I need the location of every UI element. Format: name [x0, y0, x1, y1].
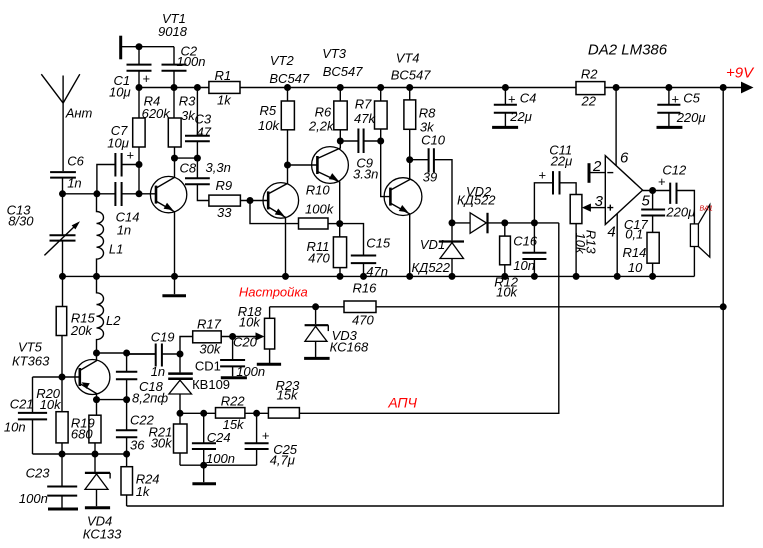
svg-text:DA2 LM386: DA2 LM386 [588, 42, 668, 59]
svg-text:15k: 15k [277, 388, 299, 403]
diode VD2 [452, 213, 505, 234]
resistor R20 [56, 377, 68, 454]
transistor VT1 [150, 158, 186, 276]
svg-text:КС168: КС168 [330, 340, 369, 355]
capacitor C5 [657, 88, 683, 128]
svg-text:680: 680 [71, 427, 93, 442]
svg-text:220μ: 220μ [676, 110, 706, 125]
node rail R11 [337, 273, 344, 280]
svg-text:CD1: CD1 [195, 359, 221, 374]
svg-text:КД522: КД522 [412, 260, 451, 275]
svg-text:3,3n: 3,3n [206, 160, 231, 175]
node rail VT1e [171, 273, 178, 280]
svg-text:C16: C16 [513, 234, 538, 249]
svg-text:R3: R3 [179, 93, 196, 108]
node rail R12 [501, 273, 508, 280]
svg-text:+9V: +9V [726, 65, 755, 82]
svg-text:VT2: VT2 [270, 53, 295, 68]
node R20 bottom [59, 451, 66, 458]
ground bar top left [119, 36, 122, 60]
svg-text:C21: C21 [10, 396, 34, 411]
capacitor C12 [670, 183, 694, 224]
node rail C15 [360, 273, 367, 280]
svg-text:1k: 1k [136, 484, 151, 499]
svg-text:C12: C12 [662, 163, 687, 178]
svg-text:2: 2 [592, 158, 602, 175]
node rail R5 [284, 84, 291, 91]
svg-text:100n: 100n [177, 54, 206, 69]
capacitor C9 [340, 129, 380, 154]
resistor R23 [268, 408, 299, 419]
svg-text:10k: 10k [496, 284, 518, 299]
svg-text:C15: C15 [366, 235, 391, 250]
resistor R3 [168, 88, 181, 159]
node VD2 in [449, 219, 456, 226]
svg-text:R14: R14 [623, 245, 647, 260]
svg-text:22μ: 22μ [509, 109, 532, 124]
varicap CD1 [168, 354, 193, 413]
svg-text:АПЧ: АПЧ [387, 395, 417, 411]
node A1 [59, 190, 66, 197]
svg-text:22μ: 22μ [550, 153, 573, 168]
capacitor C24 [192, 413, 216, 465]
wire pin4 [616, 214, 618, 277]
node C24 top [200, 410, 207, 417]
capacitor C16 [522, 223, 546, 277]
svg-text:4: 4 [607, 224, 615, 241]
svg-text:1n: 1n [151, 364, 165, 379]
transistor VT2 [263, 165, 299, 276]
svg-text:L2: L2 [106, 313, 121, 328]
svg-text:6: 6 [620, 149, 629, 166]
svg-text:+: + [143, 71, 151, 86]
resistor R5 [281, 88, 294, 166]
svg-text:8,2пф: 8,2пф [132, 391, 168, 406]
opamp DA2 [605, 156, 642, 225]
resistor R15 [56, 276, 66, 377]
svg-text:VT4: VT4 [396, 50, 420, 65]
top supply rail [139, 87, 742, 89]
node C9 right [377, 138, 384, 145]
svg-text:R9: R9 [216, 178, 233, 193]
svg-text:10μ: 10μ [107, 135, 129, 150]
node rail VD1 [449, 273, 456, 280]
svg-text:C6: C6 [67, 154, 84, 169]
svg-text:22: 22 [581, 94, 597, 109]
resistor R11 [333, 224, 346, 277]
transistor VT4 [384, 160, 422, 277]
resistor R1 [209, 82, 240, 94]
resistor R21 [174, 413, 188, 465]
svg-text:470: 470 [352, 313, 374, 328]
node L2 bottom [93, 350, 100, 357]
node R4-C7 [136, 161, 143, 168]
node rail C1 [136, 84, 143, 91]
svg-text:0,1: 0,1 [625, 227, 643, 242]
svg-text:R5: R5 [260, 103, 277, 118]
node VD3 top [312, 303, 319, 310]
svg-text:4,7μ: 4,7μ [270, 452, 295, 467]
wire pin6 [615, 88, 617, 166]
node R10 right [336, 220, 343, 227]
node rail VT4e [406, 273, 413, 280]
svg-text:+: + [672, 91, 680, 106]
svg-text:10k: 10k [258, 118, 280, 133]
node rail pin4 [614, 273, 621, 280]
svg-text:КД522: КД522 [457, 193, 496, 208]
potentiometer R13 [570, 195, 605, 277]
node rail R8 [406, 84, 413, 91]
node R17-C20 [229, 333, 236, 340]
variable capacitor C13 [44, 194, 80, 277]
zener diode VD4 [85, 454, 110, 508]
svg-text:36: 36 [130, 437, 145, 452]
svg-text:3: 3 [595, 193, 604, 210]
svg-text:R22: R22 [221, 394, 246, 409]
capacitor C4 [492, 88, 518, 128]
node rail C13 [59, 273, 66, 280]
wire AFC node line [180, 223, 559, 413]
svg-text:Настройка: Настройка [239, 284, 308, 299]
antenna WA [41, 74, 80, 171]
svg-text:100n: 100n [206, 451, 235, 466]
capacitor C17 [641, 191, 665, 233]
resistor R9 [209, 195, 268, 206]
svg-text:30k: 30k [199, 341, 221, 356]
svg-text:100n: 100n [236, 364, 265, 379]
svg-text:C8: C8 [180, 161, 197, 176]
wire VT5 base [33, 376, 80, 378]
node rail L1 [93, 273, 100, 280]
svg-text:C20: C20 [233, 334, 258, 349]
svg-text:КТ363: КТ363 [12, 354, 50, 369]
node rail R7 [377, 84, 384, 91]
ground bar pin2 [588, 163, 591, 183]
svg-text:BC547: BC547 [391, 67, 432, 82]
svg-text:R10: R10 [306, 182, 331, 197]
node C22 top [123, 396, 130, 403]
resistor R24 [121, 454, 133, 506]
node R19 bottom [92, 451, 99, 458]
capacitor C10 [410, 148, 452, 223]
svg-text:10μ: 10μ [109, 85, 131, 100]
resistor R8 [404, 88, 416, 160]
svg-text:9018: 9018 [158, 24, 188, 39]
wire VT5 bias bottom [33, 453, 127, 455]
wire collector node VT1 [175, 157, 198, 159]
node rail pin6 [613, 84, 620, 91]
wire output pin5 [643, 190, 671, 192]
ground below VT1 [162, 276, 186, 295]
capacitor C1 [127, 47, 152, 88]
svg-text:C22: C22 [130, 413, 155, 428]
capacitor C6 [50, 172, 76, 194]
resistor R22 [216, 408, 245, 419]
svg-text:3.3n: 3.3n [353, 167, 378, 182]
resistor R17 [180, 331, 257, 354]
speaker BA1 [690, 205, 709, 277]
potentiometer R18 [256, 307, 282, 365]
svg-text:VD1: VD1 [420, 237, 445, 252]
wire bottom supply return [127, 307, 724, 506]
svg-text:C10: C10 [421, 133, 446, 148]
svg-text:L1: L1 [109, 241, 123, 256]
node VT2 collector [284, 162, 291, 169]
node rail C5 [665, 84, 672, 91]
wire base node VT1 [63, 193, 157, 195]
node rail R14 [649, 273, 656, 280]
node C1 top [136, 43, 143, 50]
svg-text:1n: 1n [67, 176, 81, 191]
svg-text:R7: R7 [355, 97, 372, 112]
svg-text:+: + [539, 168, 547, 183]
zener diode VD3 [304, 307, 330, 359]
svg-text:R8: R8 [419, 106, 436, 121]
wire AFC ground node [180, 464, 257, 466]
wire tuning line [270, 306, 724, 308]
svg-text:R16: R16 [353, 281, 378, 296]
wire VT2 collector to VT3 base [288, 164, 318, 166]
wire VT5 collector node [97, 353, 156, 354]
svg-text:1k: 1k [217, 93, 232, 108]
node C9 left [337, 138, 344, 145]
inductor L1 [97, 194, 104, 277]
node C18 top [123, 350, 130, 357]
svg-text:R2: R2 [581, 67, 598, 82]
resistor R6 [334, 88, 347, 142]
node R9 out [247, 197, 254, 204]
node R3-C3 [171, 155, 178, 162]
svg-text:BC547: BC547 [269, 71, 310, 86]
node C16 top [531, 219, 538, 226]
svg-text:47: 47 [197, 124, 212, 139]
svg-text:10n: 10n [4, 420, 26, 435]
capacitor C3 [185, 88, 210, 159]
node C10 left [406, 156, 413, 163]
node rail C16 [531, 273, 538, 280]
node A2 [93, 190, 100, 197]
transistor VT5 [75, 353, 110, 400]
ground below C24 [192, 465, 216, 484]
resistor R4 [133, 88, 145, 194]
resistor R12 [500, 223, 511, 277]
capacitor C22 [116, 400, 137, 454]
node C25 top [253, 410, 260, 417]
svg-text:C23: C23 [26, 465, 51, 480]
capacitor C2 [162, 47, 187, 88]
svg-text:КВ109: КВ109 [192, 377, 230, 392]
svg-text:8/30: 8/30 [8, 214, 34, 229]
node C24 bottom [200, 462, 207, 469]
svg-text:33: 33 [217, 205, 232, 220]
node CD1 bottom [177, 410, 184, 417]
resistor R19 [89, 400, 101, 454]
capacitor C21 [18, 377, 47, 454]
resistor R2 [576, 82, 605, 95]
resistor R16 [344, 301, 376, 313]
svg-text:C4: C4 [520, 91, 537, 106]
svg-text:10k: 10k [239, 315, 261, 330]
ground rail middle [63, 275, 695, 277]
node tuning right [720, 303, 727, 310]
node rail C3 [194, 84, 201, 91]
transistor VT3 [312, 141, 349, 224]
arrow +9V [741, 82, 754, 94]
node output [649, 187, 656, 194]
capacitor C20 [220, 337, 247, 378]
capacitor C15 [340, 224, 377, 277]
svg-text:VT5: VT5 [18, 340, 43, 355]
svg-text:BA1: BA1 [700, 206, 713, 213]
resistor R7 [375, 88, 391, 197]
capacitor C11 [534, 171, 576, 223]
svg-text:2,2k: 2,2k [308, 119, 335, 134]
svg-text:Ант: Ант [65, 106, 93, 121]
svg-text:10n: 10n [513, 258, 535, 273]
capacitor C7 [97, 153, 139, 194]
svg-text:+: + [262, 428, 270, 443]
svg-text:10k: 10k [40, 397, 62, 412]
svg-text:BC547: BC547 [323, 64, 364, 79]
capacitor C14 [115, 182, 121, 206]
svg-text:R17: R17 [197, 317, 222, 332]
svg-text:C5: C5 [683, 91, 700, 106]
node A3 [136, 190, 143, 197]
node rail C4 [502, 84, 509, 91]
wire right vertical [722, 88, 724, 307]
inductor L2 [97, 276, 104, 353]
node rail C2 [171, 84, 178, 91]
svg-text:100n: 100n [19, 491, 48, 506]
svg-text:100k: 100k [305, 202, 335, 217]
svg-text:20k: 20k [70, 323, 93, 338]
capacitor C8 [185, 158, 210, 200]
node R24 top [123, 451, 130, 458]
svg-text:R1: R1 [215, 68, 232, 83]
resistor R14 [647, 232, 659, 276]
svg-text:220μ: 220μ [665, 205, 695, 220]
resistor R10 [250, 201, 340, 230]
svg-text:10k: 10k [573, 233, 588, 255]
node C3-C8 [194, 155, 201, 162]
wire pin2 [589, 172, 605, 174]
svg-text:47k: 47k [354, 111, 376, 126]
svg-text:39: 39 [423, 169, 437, 184]
wire ground stub [121, 46, 174, 48]
svg-text:10: 10 [628, 260, 643, 275]
svg-text:R6: R6 [315, 104, 332, 119]
svg-text:C19: C19 [151, 330, 175, 345]
svg-text:VT3: VT3 [322, 46, 347, 61]
svg-text:470: 470 [308, 251, 330, 266]
capacitor C25 [245, 413, 269, 465]
svg-text:1n: 1n [117, 222, 131, 237]
node VD2 out [501, 219, 508, 226]
node C19-CD1 [177, 351, 184, 358]
capacitor C23 [47, 454, 78, 509]
node rail R6 [337, 84, 344, 91]
wire VT5 emitter node [97, 399, 127, 401]
diode VD1 [439, 223, 464, 277]
node rail right [720, 84, 727, 91]
capacitor C18 [116, 353, 137, 400]
svg-text:КС133: КС133 [83, 527, 122, 542]
node VT5 emitter [93, 396, 100, 403]
svg-text:30k: 30k [151, 436, 173, 451]
svg-text:C24: C24 [207, 430, 231, 445]
wire detector node [505, 222, 559, 224]
node rail R13 [573, 273, 580, 280]
capacitor C19 [127, 344, 180, 367]
node rail VT2e [282, 273, 289, 280]
node VT5 base [59, 374, 66, 381]
svg-text:+: + [508, 91, 516, 106]
svg-text:5: 5 [642, 193, 651, 210]
svg-text:620k: 620k [142, 106, 172, 121]
